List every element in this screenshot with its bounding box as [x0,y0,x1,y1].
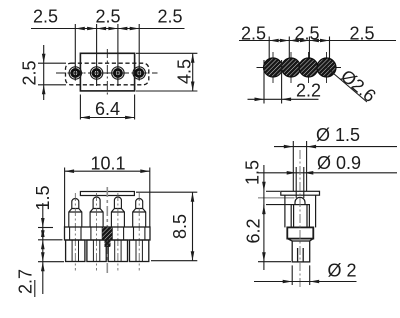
svg-text:2.5: 2.5 [20,60,40,85]
svg-text:6.4: 6.4 [95,99,120,119]
leg inner walls [72,240,142,262]
svg-text:1.5: 1.5 [243,160,263,185]
shoulder block [287,227,313,238]
svg-text:6.2: 6.2 [244,218,264,243]
pin 2 top view [90,67,102,79]
wire circle 1 [264,58,283,77]
svg-text:2.2: 2.2 [296,81,321,101]
dia 2 dim [254,265,357,285]
extension line pin2 [96,24,98,86]
top plate [80,192,134,196]
pin 4 top view [133,67,145,79]
svg-text:1.5: 1.5 [33,185,53,210]
circle centerlines vertical [273,52,327,83]
center axis vertical [106,187,108,273]
front pin 2 [90,197,103,227]
extension line pin4 [138,24,140,80]
arrows top chain [75,27,139,31]
gray stub line [258,197,295,199]
pin 1 top view [69,67,81,79]
plate section [281,191,320,195]
extension ticks [268,37,270,61]
inner solid rect [80,53,134,91]
dim 1.5 left (plate to collar) [264,165,291,215]
legs [66,240,149,262]
chamfer + cylinder [287,239,313,262]
svg-text:10.1: 10.1 [90,154,125,174]
label 2.7 underline [34,280,36,297]
svg-text:2.7: 2.7 [16,269,36,294]
svg-text:4.5: 4.5 [175,59,195,84]
can [291,205,309,228]
pin centerlines [75,193,139,271]
right dim 4.5 [136,53,197,91]
wire circle 2 [282,58,301,77]
bottom dim 6.4 [80,95,134,120]
left dim 2.5 vertical [38,45,66,100]
leader diameter 2.6 [327,68,368,103]
svg-text:2.5: 2.5 [33,7,58,27]
horizontal centerline [56,72,158,74]
dim line top chain 2.5/2.5/2.5 [31,28,185,30]
pin crosshairs [68,65,147,80]
dim 8.5 [136,192,197,261]
svg-text:2.5: 2.5 [349,24,374,44]
svg-text:2.5: 2.5 [157,7,182,27]
sleeve lines [284,195,286,227]
extension line pin1 [74,24,76,80]
dim 6.2 left [258,205,291,270]
dim 2.2 [248,60,319,104]
wire circle 4 [317,58,336,77]
front pins [69,197,146,227]
bar chamber walls [70,227,145,240]
vertical center axis [106,49,108,96]
svg-text:Ø 1.5: Ø 1.5 [316,125,360,145]
dia 1.5 dim [274,141,397,192]
body outline dashed rounded rect [66,63,149,85]
svg-text:Ø 0.9: Ø 0.9 [317,153,361,173]
main bar [65,227,151,240]
svg-text:2.5: 2.5 [294,24,319,44]
center key block hatched [102,227,112,239]
svg-text:2.5: 2.5 [95,7,120,27]
centerline horizontal [257,67,342,69]
front pin 1 [69,199,82,227]
front pin 4 [133,199,146,227]
extension line pin3 [117,24,119,86]
dome tip [295,197,305,204]
dim line top chain right view [239,40,396,42]
svg-text:8.5: 8.5 [170,214,190,239]
dim 10.1 [65,168,150,228]
dia 0.9 dim [258,167,397,198]
pin center axis [299,150,301,289]
left dims 1.5 / 2.7 [38,203,64,294]
svg-text:2.5: 2.5 [241,24,266,44]
pin 3 top view [112,67,124,79]
front pin 3 [111,197,124,227]
contact pin side view [285,195,316,227]
svg-text:Ø 2: Ø 2 [327,261,356,281]
wire circle 3 [299,58,318,77]
